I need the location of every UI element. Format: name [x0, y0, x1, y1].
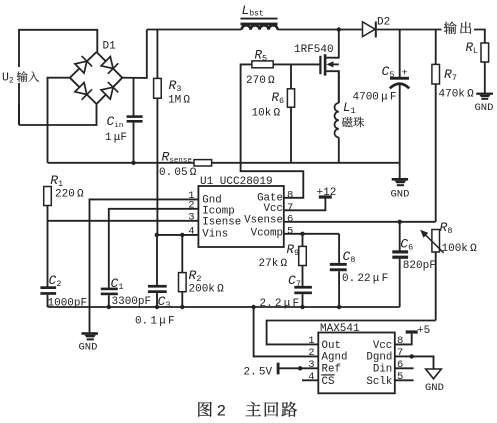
diode D2	[363, 22, 376, 37]
svg-text:C5: C5	[382, 64, 395, 80]
svg-text:C7: C7	[288, 273, 301, 289]
wire: U1 pin6 Vsense line to divider	[284, 221, 436, 223]
resistor R7 470kohm	[435, 30, 437, 65]
svg-text:8: 8	[287, 189, 293, 201]
capacitor C2 1000pF	[40, 286, 56, 289]
svg-text:0.22μF: 0.22μF	[342, 273, 388, 285]
resistor R1 220ohm	[44, 187, 52, 206]
wire: U1 pin3 Isense to R1	[48, 220, 199, 222]
svg-text:Isense: Isense	[202, 217, 241, 229]
wire: rail D2 to output	[377, 29, 443, 31]
wire: sense rail	[48, 162, 195, 164]
svg-text:Vcomp: Vcomp	[251, 227, 283, 239]
svg-text:D2: D2	[377, 17, 390, 29]
svg-text:R8: R8	[440, 220, 453, 236]
wire: MAX541 Dgnd to GND triangle	[395, 356, 434, 369]
wire: analog ground rail	[48, 306, 400, 308]
svg-text:0.05Ω: 0.05Ω	[159, 167, 197, 179]
wire: R1/pin3 down to C2	[47, 221, 49, 287]
capacitor C6 820pF	[399, 222, 401, 251]
svg-text:Rsense: Rsense	[162, 150, 192, 166]
svg-text:1MΩ: 1MΩ	[168, 95, 190, 107]
node: U2 input label	[1, 67, 43, 83]
svg-text:Din: Din	[373, 364, 392, 376]
wire: AC input loop	[19, 30, 97, 125]
wire: MAX541 Din stub	[395, 367, 414, 369]
svg-text:Vcc: Vcc	[373, 340, 392, 352]
power: +5 supply bar	[406, 330, 418, 333]
svg-text:GND: GND	[425, 382, 444, 394]
wire: MAX541 Out to R8 wiper loop	[267, 321, 436, 345]
svg-text:+: +	[402, 68, 408, 80]
capacitor C5 4700uF electrolytic	[399, 30, 401, 78]
svg-text:Sclk: Sclk	[366, 376, 392, 388]
bridge rectifier D1	[70, 52, 123, 104]
svg-text:Ref: Ref	[322, 364, 341, 376]
wire: bridge plus to top rail	[122, 30, 147, 78]
svg-text:R2: R2	[189, 268, 202, 284]
resistor R9 27kohm	[302, 234, 304, 247]
ground: sense rail GND	[399, 163, 401, 179]
svg-text:Vins: Vins	[202, 228, 228, 240]
resistor Rsense 0.05ohm	[194, 160, 212, 166]
svg-text:Out: Out	[322, 340, 341, 352]
IC U2 MAX541	[318, 333, 395, 394]
svg-text:R5: R5	[255, 49, 268, 64]
wire: U1 pin1 Gnd to GND	[90, 199, 199, 332]
wire: bridge minus to left column	[48, 78, 70, 163]
svg-text:5: 5	[287, 225, 293, 237]
power: +12 supply bar	[319, 195, 332, 198]
svg-text:CS: CS	[322, 376, 335, 388]
junction: Cin-bottom on sense rail	[131, 161, 135, 165]
ground: signal GND triangle	[426, 369, 442, 379]
inductor L1 ferrite bead	[338, 71, 340, 103]
potentiometer R8 100kohm	[432, 230, 440, 253]
caption: figure 2 main circuit	[198, 402, 212, 417]
svg-text:C8: C8	[343, 249, 356, 265]
capacitor C3 0.1uF	[156, 235, 158, 285]
diode D1a (left-top edge)	[75, 61, 87, 73]
svg-text:C6: C6	[400, 237, 413, 253]
resistor R6 10kohm	[290, 64, 292, 88]
svg-text:470kΩ: 470kΩ	[439, 89, 475, 101]
ground: U1 GND symbol	[82, 332, 98, 335]
diode D1c (left-bottom edge)	[75, 83, 87, 95]
svg-text:R1: R1	[50, 173, 63, 189]
svg-text:RL: RL	[466, 41, 479, 56]
wire: MAX541 Vcc to +5	[395, 334, 412, 345]
wire: MAX541 Sclk stub	[395, 379, 414, 381]
capacitor Cin	[133, 78, 135, 116]
svg-text:1μF: 1μF	[105, 132, 127, 144]
svg-text:Vcc: Vcc	[264, 203, 283, 215]
svg-text:C2: C2	[49, 273, 62, 289]
diode D1d (bottom-right edge)	[101, 87, 113, 99]
wire: U1 pin2 Icomp to C1	[109, 209, 199, 288]
svg-text:10kΩ: 10kΩ	[252, 108, 281, 120]
wire: gate to R5	[273, 63, 320, 65]
svg-text:6: 6	[287, 213, 293, 225]
svg-text:2.2μF: 2.2μF	[260, 298, 300, 310]
svg-text:200kΩ: 200kΩ	[189, 283, 225, 295]
inductor Lbst	[241, 18, 278, 20]
svg-text:Dgnd: Dgnd	[366, 352, 392, 364]
wire: output to RL	[474, 30, 485, 44]
node: output label	[442, 19, 475, 35]
capacitor C1 3300pF	[101, 288, 118, 291]
wire: MAX541 Ref to 2.5V	[280, 367, 319, 369]
svg-text:Vsense: Vsense	[244, 214, 283, 226]
resistor R5 270ohm	[252, 61, 273, 68]
svg-text:C1: C1	[111, 276, 124, 292]
wire: MAX541 Agnd to ground rail	[254, 307, 319, 356]
svg-text:U1 UCC28019: U1 UCC28019	[200, 176, 273, 188]
IC U1 UCC28019	[198, 186, 283, 247]
svg-text:820pF: 820pF	[403, 260, 436, 272]
resistor RL load	[481, 43, 489, 62]
svg-text:270Ω: 270Ω	[246, 75, 275, 87]
svg-text:GND: GND	[391, 189, 410, 201]
svg-text:MAX541: MAX541	[320, 323, 360, 335]
svg-text:27kΩ: 27kΩ	[259, 258, 288, 270]
wire: U1 pin7 Vcc to +12	[284, 198, 326, 210]
resistor R2 200kohm	[181, 235, 183, 273]
svg-text:GND: GND	[475, 102, 494, 114]
svg-text:R3: R3	[169, 78, 182, 94]
svg-text:0.1μF: 0.1μF	[135, 316, 175, 328]
svg-text:R6: R6	[272, 91, 285, 106]
svg-text:Agnd: Agnd	[322, 352, 348, 364]
capacitor C7 2.2uF	[302, 266, 304, 287]
svg-text:Icomp: Icomp	[202, 205, 234, 217]
svg-text:D1: D1	[103, 41, 117, 53]
svg-text:7: 7	[287, 202, 293, 214]
svg-text:R9: R9	[287, 243, 300, 258]
svg-text:+12: +12	[317, 187, 337, 199]
svg-text:4700μF: 4700μF	[353, 92, 397, 104]
svg-text:1RF540: 1RF540	[294, 44, 334, 56]
svg-text:220Ω: 220Ω	[55, 188, 84, 200]
wire: rail Lbst to D2	[278, 29, 363, 31]
wire: U1 pin4 Vins line	[157, 234, 199, 236]
svg-text:2.5V: 2.5V	[244, 367, 273, 379]
ground: RL GND	[484, 62, 486, 93]
svg-text:100kΩ: 100kΩ	[442, 243, 478, 255]
wire: top boost rail	[147, 29, 242, 31]
svg-text:R7: R7	[444, 67, 457, 83]
svg-text:2: 2	[217, 403, 227, 421]
svg-text:Cin: Cin	[107, 114, 124, 130]
wire: R5 left + gate drive to U1 pin8	[241, 64, 304, 197]
svg-text:Lbst: Lbst	[242, 3, 264, 19]
terminal: 2.5V reference	[277, 363, 280, 375]
wire: MAX541 CS stub	[302, 379, 318, 381]
diode D1b (top-right edge)	[101, 57, 113, 69]
overline on CS pin label	[321, 374, 334, 376]
svg-text:+5: +5	[417, 325, 430, 337]
wire: U1 pin5 Vcomp line	[284, 233, 339, 235]
capacitor C8 0.22uF	[338, 234, 340, 263]
svg-text:GND: GND	[79, 342, 98, 354]
resistor R3 1Mohm	[156, 30, 158, 79]
junction: drain tap	[337, 27, 341, 31]
